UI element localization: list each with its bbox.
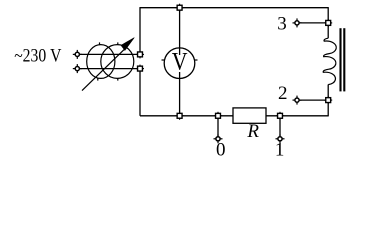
transformer T1 arrowhead <box>121 38 134 51</box>
transformer T1 (autotransformer) left winding circle <box>87 45 115 79</box>
transformer T1 right winding circle <box>101 45 134 79</box>
resistor R body <box>233 108 266 123</box>
voltmeter U1 circle <box>164 48 195 79</box>
wire: terminal 0 stub <box>217 116 219 137</box>
wire: top bus <box>140 7 328 9</box>
node: T1 input terminal upper <box>73 50 82 59</box>
junction: right vertical / terminal 2 <box>324 96 332 104</box>
wire: left vertical lower (T1 lower-right to bottom bus) <box>139 69 141 116</box>
junction: top bus / voltmeter branch <box>176 4 184 12</box>
wire: terminal 3 link <box>297 22 328 24</box>
wire: right vertical lower (coil to bottom bus) <box>327 85 329 117</box>
wire: terminal 1 stub <box>279 116 281 137</box>
junction: T1 upper right <box>136 50 144 58</box>
node: terminal 1 <box>276 134 285 143</box>
svg-text:0: 0 <box>216 140 226 161</box>
junction: bottom bus / terminal 1 <box>276 112 284 120</box>
inductor L1 core bar 1 <box>339 28 341 91</box>
wire: bottom bus <box>140 115 328 117</box>
node: terminal 3 <box>293 18 302 27</box>
wire: terminal 2 link <box>297 99 328 101</box>
junction: T1 lower right <box>136 65 144 73</box>
transformer T1 tick marks <box>98 42 118 80</box>
svg-text:V: V <box>172 49 188 76</box>
svg-text:2: 2 <box>278 83 288 104</box>
wire: T1 upper stub (through circles) <box>77 53 140 55</box>
svg-text:R: R <box>246 121 259 142</box>
wire: T1 lower stub (through circles) <box>77 68 140 70</box>
svg-text:~230 V: ~230 V <box>14 46 62 67</box>
transformer T1 variable-arrow diagonal line <box>82 48 126 90</box>
svg-text:1: 1 <box>275 140 285 161</box>
node: terminal 2 <box>293 96 302 105</box>
wire: left vertical upper (top bus to T1 upper-right) <box>139 7 141 54</box>
wire: voltmeter branch lower <box>179 72 181 116</box>
svg-text:3: 3 <box>277 14 287 35</box>
inductor L1 core bar 2 <box>343 28 345 91</box>
junction: bottom bus / terminal 0 <box>214 112 222 120</box>
wire: right vertical upper (top bus to coil) <box>327 7 329 38</box>
node: T1 input terminal lower <box>73 64 82 73</box>
junction: bottom bus / voltmeter branch <box>176 112 184 120</box>
wire: voltmeter branch upper <box>179 8 181 55</box>
junction: right vertical / terminal 3 <box>324 19 332 27</box>
node: terminal 0 <box>214 134 223 143</box>
inductor L1 winding <box>323 38 336 84</box>
voltmeter U1 tick marks <box>162 59 198 61</box>
